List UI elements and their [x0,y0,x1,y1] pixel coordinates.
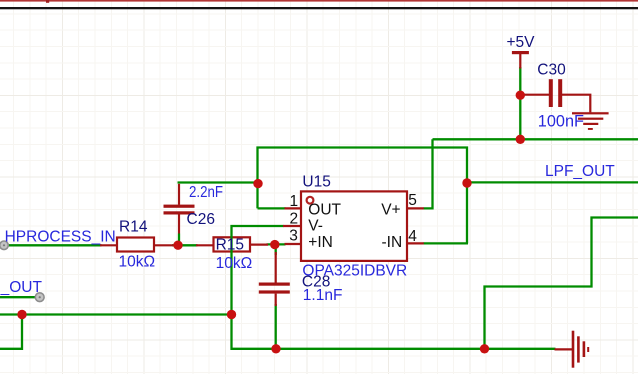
svg-text:10kΩ: 10kΩ [119,254,156,271]
wire right return [485,218,638,350]
junction R15 / C28 / +IN [270,240,279,249]
svg-text:LPF_OUT: LPF_OUT [545,163,615,180]
junction return / bus [480,344,489,353]
op-amp U15 pin 1 OUT stub [285,207,302,209]
power symbol +5V [512,51,529,69]
svg-text:U15: U15 [302,174,330,191]
wire V+ drop [424,139,433,208]
node _OUT open end [35,293,44,302]
svg-text:HPF_OUT: HPF_OUT [0,279,42,296]
wire +5V vertical [519,67,521,139]
frame black line [0,7,638,9]
wire C28 bottom [275,304,277,349]
resistor R15 leads [196,244,268,247]
wire C28 top [275,244,277,255]
svg-text:2.2nF: 2.2nF [189,184,223,201]
junction C28 / bus [271,344,280,353]
node HPROCESS_IN open end [0,241,8,250]
svg-text:C30: C30 [537,62,566,79]
wire ground bus [232,315,556,349]
svg-text:V-: V- [308,218,323,235]
wire pin4 [424,242,469,244]
svg-text:+IN: +IN [308,234,333,251]
wire C26 top [178,181,259,183]
wire LPF_OUT [467,181,638,183]
capacitor C28 [259,252,290,306]
op-amp U15 pin 5 V+ stub [407,207,424,209]
junction OUT / C26 [253,179,262,188]
svg-text:+5V: +5V [507,34,536,51]
junction left mid node [17,310,26,319]
wire feedback top [258,148,468,244]
ground GND (C30) [572,112,609,130]
junction R14 / C26 [173,241,182,250]
junction LPF_OUT node [462,178,471,187]
wire left mid [0,313,232,315]
wire pin1 [258,207,286,209]
resistor R14 body [117,238,154,252]
op-amp pin1 indicator [307,197,314,204]
svg-text:HPROCESS_IN: HPROCESS_IN [5,228,116,245]
wire V- feedback [232,226,284,315]
wire _OUT stub [0,296,37,298]
svg-text:3: 3 [289,227,298,244]
svg-text:100nF: 100nF [538,112,584,130]
capacitor C26 [164,184,195,245]
op-amp U15 pin 3 +IN stub [285,243,302,245]
svg-text:V+: V+ [381,201,400,218]
capacitor C30 [524,79,590,112]
resistor R14 leads [100,244,174,246]
wire left drop [0,315,22,349]
svg-text:2: 2 [290,211,299,228]
wire R14-R15 [172,244,198,246]
junction +5V rail [516,135,525,144]
wire HPROCESS_IN [6,244,102,246]
svg-text:1: 1 [290,193,299,210]
svg-text:OUT: OUT [308,201,341,218]
svg-text:4: 4 [408,228,417,245]
svg-text:5: 5 [408,192,417,209]
wire R15-pin3 [267,243,286,245]
ground GND (bus) [555,331,590,368]
op-amp U15 pin 2 V- stub [283,225,301,227]
svg-text:-IN: -IN [382,234,403,251]
svg-text:R14: R14 [119,218,148,235]
svg-text:R15: R15 [216,237,244,254]
junction +5V / C30 [516,91,525,100]
svg-text:10kΩ: 10kΩ [216,255,253,272]
svg-text:1.1nF: 1.1nF [303,287,343,304]
junction V- / bus corner [227,310,236,319]
op-amp U15 pin 4 -IN stub [407,242,424,244]
op-amp U15 body [301,191,407,261]
resistor R15 body [214,237,251,251]
frame red top line [0,0,638,3]
wire V+ rail [433,138,638,140]
svg-text:C26: C26 [187,211,215,228]
